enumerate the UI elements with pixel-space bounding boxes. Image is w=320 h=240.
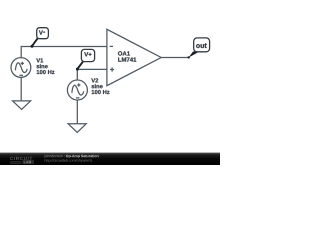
- flag out text: [196, 43, 207, 48]
- wire net V+ from V2 top to op-amp non-inverting input: [77, 69, 107, 80]
- flag V- box: [37, 28, 49, 39]
- flag V- junction dot: [31, 45, 34, 48]
- ground for V1: [13, 101, 31, 110]
- label V1 name: [36, 58, 43, 62]
- V1 minus terminal mark: [19, 74, 23, 76]
- flag out junction dot: [188, 56, 190, 58]
- voltage source V2 circle: [67, 80, 87, 100]
- label V2 name: [91, 78, 98, 82]
- label LM741: [118, 58, 136, 62]
- CircuitLab logo LAB text: [24, 161, 31, 164]
- CircuitLab logo rule top: [10, 161, 22, 163]
- watermark caption author: [44, 155, 64, 158]
- op-amp U1 triangle body: [107, 29, 161, 85]
- flag V+ pointer: [78, 61, 84, 69]
- V2 sine symbol: [72, 85, 84, 95]
- V1 sine symbol: [15, 63, 27, 73]
- label OA1: [118, 51, 130, 55]
- flag V- pointer: [32, 38, 38, 46]
- label V2 value 100 Hz: [92, 90, 110, 94]
- op-amp non-inverting input marker: [110, 67, 114, 71]
- flag out box: [194, 38, 210, 52]
- op-amp inverting input marker: [110, 45, 113, 47]
- wire V1 bottom to ground: [20, 77, 22, 100]
- V1 plus terminal mark: [21, 62, 24, 65]
- voltage source V1 circle: [11, 58, 31, 78]
- V2 plus terminal mark: [77, 83, 80, 86]
- wire V2 bottom to ground: [76, 100, 78, 123]
- CircuitLab logo wordmark: [10, 157, 32, 160]
- CircuitLab logo rule bottom: [10, 162, 22, 164]
- flag V+ text: [84, 52, 91, 56]
- ground for V2: [68, 124, 86, 133]
- wire net V- from V1 top to op-amp inverting input: [21, 47, 107, 59]
- CircuitLab logo LAB plate: [23, 160, 35, 164]
- flag V+ junction dot: [76, 68, 79, 71]
- wire op-amp output: [161, 57, 189, 59]
- flag V+ box: [81, 49, 94, 61]
- watermark caption title: [66, 155, 99, 158]
- label V2 type sine: [92, 84, 103, 88]
- flag V- text: [39, 30, 43, 34]
- flag out pointer: [189, 52, 200, 58]
- label V1 value 100 Hz: [37, 70, 55, 74]
- label V1 type sine: [37, 64, 48, 68]
- V2 minus terminal mark: [76, 97, 80, 99]
- watermark caption url: [45, 159, 92, 162]
